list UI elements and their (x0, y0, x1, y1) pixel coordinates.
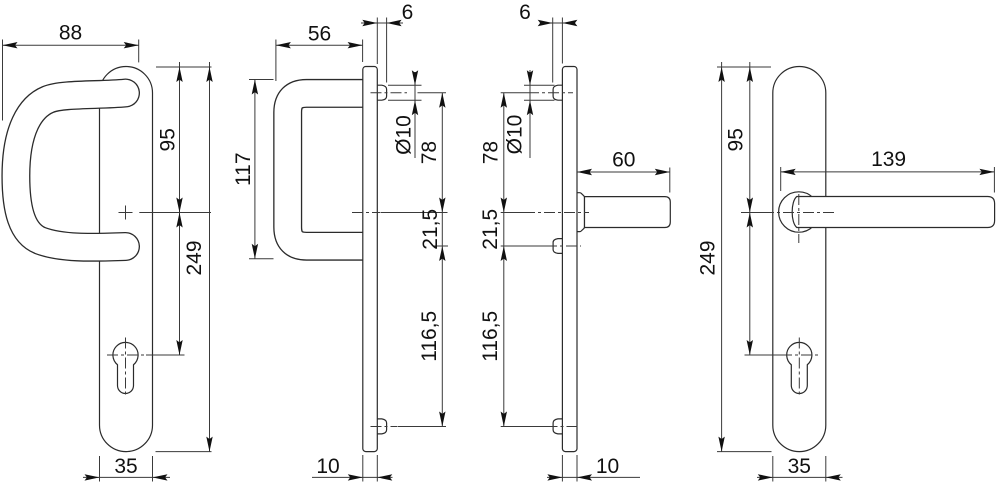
svg-text:78: 78 (480, 141, 503, 164)
svg-text:95: 95 (724, 128, 747, 151)
svg-text:10: 10 (316, 455, 339, 478)
svg-text:6: 6 (402, 1, 414, 24)
svg-text:78: 78 (418, 141, 441, 164)
svg-text:249: 249 (183, 240, 206, 275)
svg-text:35: 35 (114, 455, 137, 478)
svg-text:249: 249 (697, 240, 720, 275)
svg-text:95: 95 (156, 128, 179, 151)
svg-text:88: 88 (59, 22, 82, 45)
svg-text:21,5: 21,5 (419, 209, 442, 250)
svg-text:139: 139 (871, 148, 906, 171)
svg-text:Ø10: Ø10 (504, 115, 527, 155)
svg-text:116,5: 116,5 (479, 311, 502, 362)
svg-text:10: 10 (596, 455, 619, 478)
svg-text:21,5: 21,5 (479, 209, 502, 250)
svg-text:35: 35 (788, 455, 811, 478)
svg-text:56: 56 (308, 23, 331, 46)
svg-text:6: 6 (519, 1, 531, 24)
svg-text:60: 60 (612, 148, 635, 171)
svg-text:117: 117 (232, 152, 255, 185)
svg-text:116,5: 116,5 (418, 311, 441, 362)
svg-text:Ø10: Ø10 (393, 115, 416, 155)
